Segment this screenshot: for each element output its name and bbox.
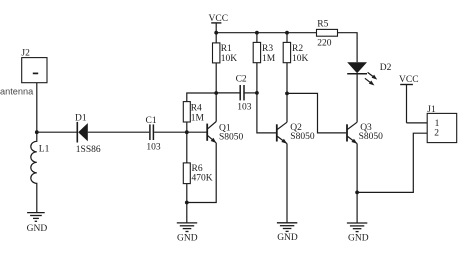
power VCC center: [211, 23, 221, 33]
svg-text:J2: J2: [21, 48, 30, 58]
wire to J1 pin2: [357, 133, 427, 192]
capacitor C1: [150, 124, 154, 140]
wire R2 top: [286, 33, 288, 43]
svg-text:D2: D2: [380, 63, 392, 73]
wire J2 to antenna node: [36, 83, 38, 133]
svg-text:J1: J1: [427, 105, 436, 115]
node Q3 emitter junction: [355, 191, 359, 195]
svg-text:470K: 470K: [192, 174, 213, 184]
wire Q3 emitter: [356, 144, 358, 193]
node antenna junction: [35, 130, 39, 134]
wire VCC rail: [216, 32, 316, 34]
svg-text:S8050: S8050: [219, 132, 244, 142]
led D2: [347, 62, 377, 85]
svg-text:S8050: S8050: [359, 132, 384, 142]
ground Q1: [177, 223, 197, 232]
wire to Q3 base: [287, 93, 346, 132]
node base junction Q1: [185, 130, 189, 134]
resistor R6: [183, 163, 190, 184]
svg-text:GND: GND: [27, 224, 48, 234]
wire to ground Q1: [186, 203, 188, 223]
wire Q3 to ground: [356, 192, 358, 223]
wire Q2 emitter to ground: [286, 144, 288, 223]
wire LED to Q3 collector: [356, 74, 358, 123]
svg-text:R1: R1: [221, 44, 232, 54]
svg-text:10K: 10K: [292, 54, 309, 64]
wire node to D1: [37, 131, 77, 133]
wire node to R6: [186, 132, 188, 163]
transistor Q1: [207, 122, 216, 143]
node rail R2: [285, 31, 289, 35]
svg-text:VCC: VCC: [399, 75, 419, 85]
wire R3 top: [256, 33, 258, 43]
svg-text:10K: 10K: [221, 54, 238, 64]
svg-text:1M: 1M: [262, 54, 276, 64]
wire D1 to C1: [88, 131, 149, 133]
svg-text:VCC: VCC: [209, 14, 229, 24]
resistor R5: [317, 29, 338, 36]
svg-text:2: 2: [434, 128, 439, 138]
wire R5 to LED: [338, 33, 358, 63]
svg-text:S8050: S8050: [290, 132, 315, 142]
svg-text:D1: D1: [75, 113, 87, 123]
wire R4 top to collector node: [187, 93, 216, 102]
wire R2 / Q2 collector: [286, 63, 288, 122]
wire R3 to Q2 base: [257, 63, 276, 133]
wire C2 right: [245, 92, 257, 94]
svg-text:103: 103: [237, 102, 252, 112]
wire C2 left: [216, 92, 239, 94]
resistor R4: [183, 102, 190, 122]
ground left: [27, 213, 45, 222]
svg-text:antenna: antenna: [0, 87, 34, 97]
svg-text:GND: GND: [177, 233, 198, 243]
wire R1 top: [215, 33, 217, 43]
svg-text:R5: R5: [317, 20, 328, 30]
transistor Q2: [277, 122, 287, 143]
connector J2: [22, 58, 47, 83]
wire C1 to node: [154, 131, 207, 133]
svg-text:220: 220: [317, 39, 332, 49]
wire Q1 collector / R1 bottom: [215, 63, 217, 122]
transistor Q3: [347, 122, 357, 143]
node emitter junction Q1: [185, 201, 189, 205]
svg-text:C1: C1: [146, 116, 157, 126]
svg-text:R2: R2: [292, 44, 303, 54]
inductor L1: [31, 132, 37, 212]
node C2 R3 junction: [255, 91, 259, 95]
node R2 Q3 base junction: [285, 92, 289, 96]
wire VCC to J1 pin1: [407, 122, 428, 124]
node collector junction Q1: [214, 91, 218, 95]
diode D1: [77, 122, 88, 143]
node VCC rail: [214, 31, 218, 35]
resistor R1: [213, 43, 220, 63]
wire R6 bottom: [186, 184, 188, 203]
svg-text:C2: C2: [236, 75, 247, 85]
resistor R3: [253, 42, 260, 62]
capacitor C2: [240, 85, 244, 100]
svg-text:103: 103: [146, 143, 161, 153]
ground Q2: [277, 223, 297, 232]
resistor R2: [283, 42, 290, 62]
wire Q1 emitter return: [187, 143, 216, 203]
svg-text:1SS86: 1SS86: [76, 145, 101, 155]
svg-text:GND: GND: [348, 234, 369, 244]
wire R4 bottom: [186, 122, 188, 132]
power VCC right: [400, 85, 413, 123]
ground Q3: [347, 223, 367, 232]
svg-text:1M: 1M: [191, 113, 205, 123]
connector J1: [427, 113, 457, 142]
svg-text:GND: GND: [277, 233, 298, 243]
node rail R3: [255, 31, 259, 35]
svg-text:L1: L1: [39, 145, 50, 155]
svg-text:R3: R3: [262, 44, 273, 54]
svg-text:R4: R4: [191, 104, 202, 114]
